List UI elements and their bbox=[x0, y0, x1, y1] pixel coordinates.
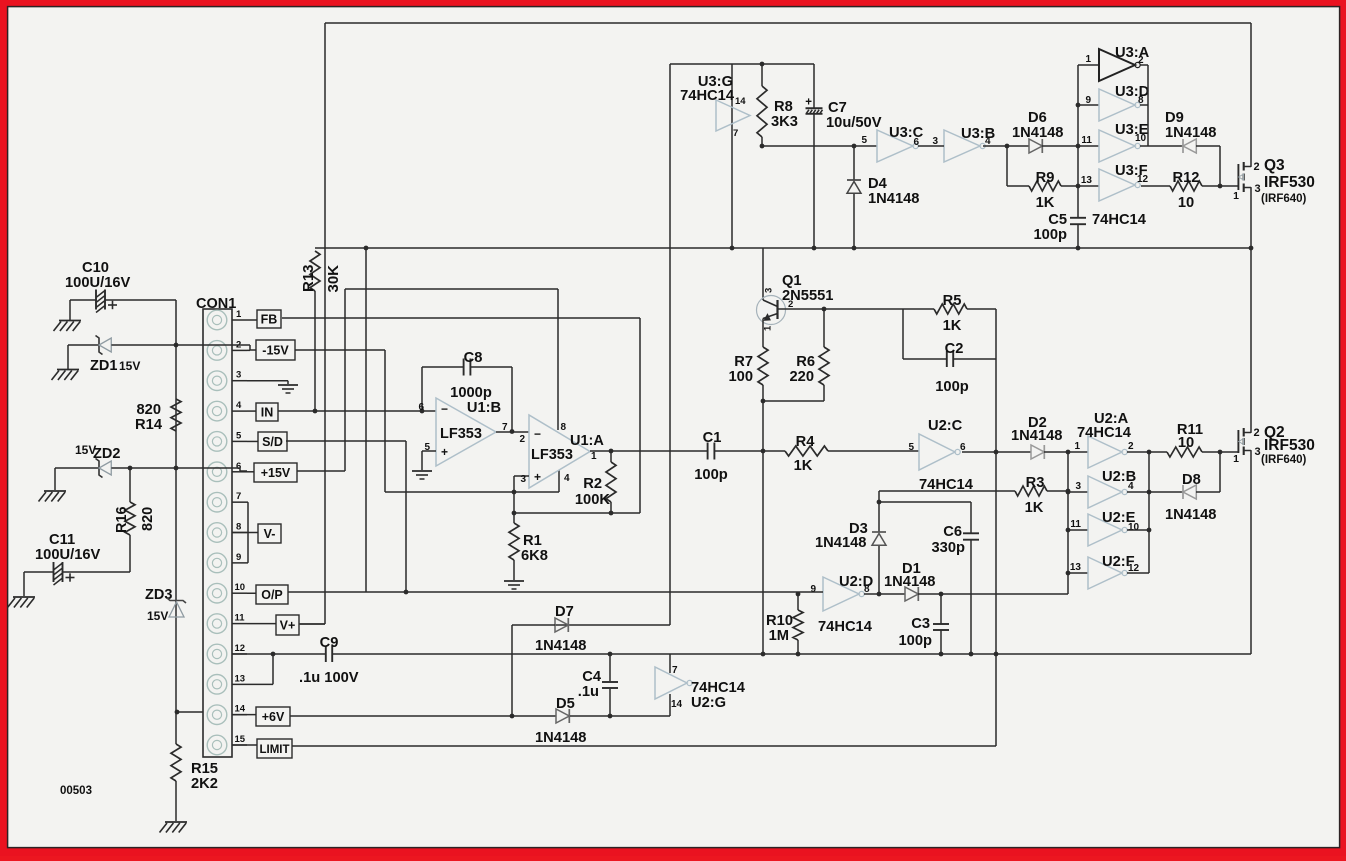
svg-text:15V: 15V bbox=[119, 359, 140, 373]
svg-text:1K: 1K bbox=[943, 318, 962, 334]
svg-text:U2:C: U2:C bbox=[928, 418, 963, 434]
svg-text:3: 3 bbox=[1075, 481, 1081, 492]
svg-text:R6: R6 bbox=[796, 354, 815, 370]
svg-text:C11: C11 bbox=[49, 532, 75, 548]
svg-text:R14: R14 bbox=[135, 417, 163, 433]
svg-text:D5: D5 bbox=[556, 696, 575, 712]
svg-text:7: 7 bbox=[236, 491, 241, 502]
svg-text:15V: 15V bbox=[147, 609, 168, 623]
svg-text:100U/16V: 100U/16V bbox=[65, 275, 131, 291]
svg-text:2: 2 bbox=[519, 434, 525, 445]
svg-text:6: 6 bbox=[418, 402, 424, 413]
svg-text:D9: D9 bbox=[1165, 110, 1184, 126]
svg-text:U1:A: U1:A bbox=[570, 433, 604, 449]
svg-text:C10: C10 bbox=[82, 260, 109, 276]
svg-text:8: 8 bbox=[560, 422, 566, 433]
svg-text:3: 3 bbox=[932, 136, 938, 147]
svg-text:220: 220 bbox=[789, 369, 814, 385]
svg-text:1: 1 bbox=[763, 325, 774, 331]
svg-text:12: 12 bbox=[1137, 174, 1149, 185]
svg-text:C8: C8 bbox=[464, 350, 483, 366]
svg-text:+6V: +6V bbox=[262, 710, 285, 724]
svg-text:1N4148: 1N4148 bbox=[815, 535, 866, 551]
svg-text:10: 10 bbox=[235, 582, 246, 593]
svg-text:4: 4 bbox=[1128, 481, 1134, 492]
svg-text:1: 1 bbox=[1233, 190, 1239, 202]
svg-text:820: 820 bbox=[140, 507, 156, 531]
svg-text:1: 1 bbox=[1085, 54, 1091, 65]
svg-text:C7: C7 bbox=[828, 100, 847, 116]
svg-text:14: 14 bbox=[671, 699, 683, 710]
svg-text:1000p: 1000p bbox=[450, 385, 492, 401]
svg-text:15: 15 bbox=[235, 734, 246, 745]
svg-text:C2: C2 bbox=[945, 341, 964, 357]
svg-text:1: 1 bbox=[1233, 453, 1239, 465]
svg-text:+15V: +15V bbox=[261, 466, 291, 480]
svg-text:13: 13 bbox=[235, 673, 246, 684]
svg-text:IRF530: IRF530 bbox=[1264, 174, 1315, 191]
svg-text:3: 3 bbox=[1255, 446, 1261, 458]
svg-text:D4: D4 bbox=[868, 176, 888, 192]
svg-text:Q3: Q3 bbox=[1264, 157, 1285, 174]
svg-text:10: 10 bbox=[1128, 522, 1140, 533]
svg-text:U3:D: U3:D bbox=[1115, 84, 1149, 100]
svg-text:3: 3 bbox=[236, 370, 241, 381]
svg-text:-15V: -15V bbox=[262, 343, 289, 357]
svg-text:R3: R3 bbox=[1026, 475, 1045, 491]
svg-text:R2: R2 bbox=[583, 476, 602, 492]
svg-text:LF353: LF353 bbox=[531, 447, 573, 463]
svg-text:ZD1: ZD1 bbox=[90, 358, 117, 374]
svg-text:IRF530: IRF530 bbox=[1264, 437, 1315, 454]
svg-text:1M: 1M bbox=[769, 628, 789, 644]
svg-text:D8: D8 bbox=[1182, 472, 1201, 488]
svg-text:C6: C6 bbox=[943, 524, 962, 540]
svg-text:+: + bbox=[805, 97, 812, 109]
svg-text:+: + bbox=[441, 445, 448, 459]
svg-text:10u/50V: 10u/50V bbox=[826, 115, 882, 131]
svg-text:1N4148: 1N4148 bbox=[884, 574, 935, 590]
svg-text:3: 3 bbox=[520, 474, 526, 485]
svg-text:14: 14 bbox=[235, 704, 246, 715]
svg-text:74HC14: 74HC14 bbox=[691, 680, 746, 696]
svg-text:2: 2 bbox=[1128, 441, 1134, 452]
svg-text:7: 7 bbox=[672, 665, 678, 676]
svg-text:2: 2 bbox=[1254, 161, 1260, 173]
svg-text:5: 5 bbox=[236, 430, 242, 441]
svg-text:D7: D7 bbox=[555, 604, 574, 620]
svg-text:11: 11 bbox=[1070, 519, 1081, 530]
svg-text:LIMIT: LIMIT bbox=[259, 744, 289, 756]
svg-text:100p: 100p bbox=[935, 379, 969, 395]
svg-text:14: 14 bbox=[735, 96, 746, 107]
svg-text:6: 6 bbox=[913, 137, 919, 148]
svg-text:10: 10 bbox=[1135, 133, 1147, 144]
svg-text:D6: D6 bbox=[1028, 110, 1047, 126]
svg-text:00503: 00503 bbox=[60, 785, 92, 797]
svg-text:1N4148: 1N4148 bbox=[1165, 125, 1216, 141]
svg-text:C9: C9 bbox=[320, 635, 339, 651]
svg-text:8: 8 bbox=[236, 522, 241, 533]
svg-text:100p: 100p bbox=[899, 633, 933, 649]
svg-text:R13: R13 bbox=[300, 264, 317, 292]
svg-text:−: − bbox=[534, 427, 541, 441]
svg-text:3: 3 bbox=[1255, 183, 1261, 195]
svg-text:3K3: 3K3 bbox=[771, 114, 798, 130]
svg-text:FB: FB bbox=[261, 312, 278, 326]
svg-text:30K: 30K bbox=[325, 265, 342, 293]
svg-text:O/P: O/P bbox=[261, 588, 283, 602]
svg-text:11: 11 bbox=[235, 613, 246, 624]
svg-text:+: + bbox=[534, 470, 541, 484]
svg-text:R10: R10 bbox=[766, 613, 793, 629]
svg-text:3: 3 bbox=[764, 288, 775, 293]
svg-text:1K: 1K bbox=[794, 458, 813, 474]
svg-text:6: 6 bbox=[960, 442, 966, 453]
svg-text:R7: R7 bbox=[734, 354, 753, 370]
svg-text:820: 820 bbox=[136, 402, 161, 418]
svg-text:(IRF640): (IRF640) bbox=[1261, 193, 1307, 205]
svg-text:1N4148: 1N4148 bbox=[535, 638, 586, 654]
svg-text:100U/16V: 100U/16V bbox=[35, 547, 101, 563]
svg-text:1K: 1K bbox=[1025, 500, 1044, 516]
svg-text:−: − bbox=[441, 402, 448, 416]
svg-text:100: 100 bbox=[728, 369, 753, 385]
svg-text:74HC14: 74HC14 bbox=[818, 619, 873, 635]
svg-text:R8: R8 bbox=[774, 99, 793, 115]
svg-text:C1: C1 bbox=[703, 430, 722, 446]
svg-text:.1u 100V: .1u 100V bbox=[299, 670, 359, 686]
svg-text:1N4148: 1N4148 bbox=[868, 191, 919, 207]
svg-text:100p: 100p bbox=[694, 467, 728, 483]
svg-text:1: 1 bbox=[591, 451, 597, 462]
svg-text:2K2: 2K2 bbox=[191, 776, 218, 792]
svg-text:5: 5 bbox=[861, 135, 867, 146]
svg-text:9: 9 bbox=[236, 552, 241, 563]
svg-text:R16: R16 bbox=[114, 506, 130, 533]
svg-text:V-: V- bbox=[264, 527, 276, 541]
svg-text:13: 13 bbox=[1081, 175, 1093, 186]
svg-text:100K: 100K bbox=[575, 492, 611, 508]
svg-text:2: 2 bbox=[1254, 427, 1260, 439]
svg-text:11: 11 bbox=[1081, 135, 1092, 146]
svg-text:(IRF640): (IRF640) bbox=[1261, 454, 1307, 466]
svg-text:R15: R15 bbox=[191, 761, 218, 777]
svg-text:S/D: S/D bbox=[262, 435, 283, 449]
svg-text:U1:B: U1:B bbox=[467, 400, 501, 416]
svg-text:74HC14: 74HC14 bbox=[1092, 212, 1147, 228]
svg-text:Q1: Q1 bbox=[782, 273, 802, 289]
svg-text:C5: C5 bbox=[1048, 212, 1067, 228]
svg-text:U2:G: U2:G bbox=[691, 695, 726, 711]
svg-text:4: 4 bbox=[564, 473, 570, 484]
svg-text:1N4148: 1N4148 bbox=[1165, 507, 1216, 523]
svg-text:1: 1 bbox=[1074, 441, 1080, 452]
svg-text:10: 10 bbox=[1178, 195, 1194, 211]
svg-text:LF353: LF353 bbox=[440, 426, 482, 442]
svg-text:9: 9 bbox=[810, 584, 816, 595]
svg-text:R4: R4 bbox=[796, 434, 816, 450]
svg-text:2N5551: 2N5551 bbox=[782, 288, 833, 304]
svg-text:1N4148: 1N4148 bbox=[535, 730, 586, 746]
svg-text:1N4148: 1N4148 bbox=[1011, 428, 1062, 444]
svg-text:V+: V+ bbox=[280, 618, 296, 632]
svg-text:1N4148: 1N4148 bbox=[1012, 125, 1063, 141]
svg-text:330p: 330p bbox=[932, 540, 966, 556]
svg-text:100p: 100p bbox=[1034, 227, 1068, 243]
svg-text:C4: C4 bbox=[582, 669, 602, 685]
svg-text:R9: R9 bbox=[1036, 170, 1055, 186]
svg-text:9: 9 bbox=[1085, 95, 1091, 106]
svg-text:.1u: .1u bbox=[578, 684, 599, 700]
svg-text:IN: IN bbox=[261, 405, 274, 419]
svg-text:74HC14: 74HC14 bbox=[680, 88, 735, 104]
svg-text:7: 7 bbox=[733, 128, 738, 139]
svg-text:C3: C3 bbox=[911, 616, 930, 632]
svg-text:4: 4 bbox=[236, 400, 242, 411]
svg-text:13: 13 bbox=[1070, 562, 1082, 573]
svg-text:74HC14: 74HC14 bbox=[1077, 425, 1132, 441]
svg-text:5: 5 bbox=[908, 442, 914, 453]
svg-text:ZD3: ZD3 bbox=[145, 587, 172, 603]
svg-text:R5: R5 bbox=[943, 293, 962, 309]
svg-text:U3:A: U3:A bbox=[1115, 45, 1150, 61]
svg-text:R12: R12 bbox=[1173, 170, 1200, 186]
svg-text:1: 1 bbox=[236, 309, 242, 320]
svg-text:6K8: 6K8 bbox=[521, 548, 548, 564]
svg-text:1K: 1K bbox=[1036, 195, 1055, 211]
svg-text:10: 10 bbox=[1178, 435, 1194, 451]
svg-text:R1: R1 bbox=[523, 533, 542, 549]
svg-text:12: 12 bbox=[235, 643, 246, 654]
